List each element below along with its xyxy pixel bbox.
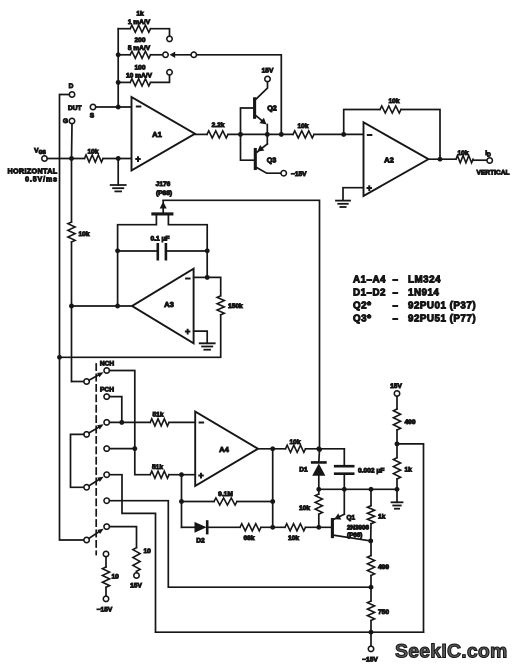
svg-text:−: − xyxy=(367,130,372,140)
svg-text:10 mA/V: 10 mA/V xyxy=(126,73,153,80)
svg-text:10k: 10k xyxy=(289,439,300,446)
svg-text:+: + xyxy=(198,470,203,480)
svg-text:10k: 10k xyxy=(79,231,90,238)
svg-text:1N914: 1N914 xyxy=(408,288,439,299)
svg-text:−15V: −15V xyxy=(291,171,307,178)
svg-text:150k: 150k xyxy=(228,303,243,310)
svg-text:1k: 1k xyxy=(378,513,386,520)
svg-text:Q2*: Q2* xyxy=(353,301,371,312)
svg-text:Q2: Q2 xyxy=(267,104,277,113)
svg-text:499: 499 xyxy=(405,419,416,426)
svg-text:–: – xyxy=(393,288,399,299)
svg-text:2.2k: 2.2k xyxy=(212,122,225,129)
svg-text:51k: 51k xyxy=(152,464,163,471)
svg-text:1k: 1k xyxy=(405,467,413,474)
svg-text:92PU51 (P77): 92PU51 (P77) xyxy=(408,313,476,324)
svg-text:10: 10 xyxy=(144,548,152,555)
svg-text:10k: 10k xyxy=(297,123,308,130)
svg-text:+: + xyxy=(185,327,190,337)
svg-text:750: 750 xyxy=(378,609,389,616)
svg-text:D2: D2 xyxy=(196,538,205,545)
svg-text:D1: D1 xyxy=(299,467,308,474)
svg-text:−15V: −15V xyxy=(97,607,113,614)
svg-text:1 mA/V: 1 mA/V xyxy=(128,19,151,26)
svg-text:+: + xyxy=(367,183,372,193)
svg-text:D1–D2: D1–D2 xyxy=(353,288,386,299)
svg-text:G: G xyxy=(63,118,68,125)
svg-text:S: S xyxy=(90,112,95,119)
svg-text:−: − xyxy=(199,417,204,427)
svg-text:(P88): (P88) xyxy=(156,190,172,197)
svg-text:NCH: NCH xyxy=(100,361,115,368)
svg-text:A4: A4 xyxy=(219,445,229,454)
svg-text:−: − xyxy=(185,274,190,284)
svg-text:Q3*: Q3* xyxy=(353,313,371,324)
svg-text:LM324: LM324 xyxy=(408,275,441,286)
svg-text:–: – xyxy=(393,275,399,286)
svg-text:200: 200 xyxy=(134,37,145,44)
svg-text:10k: 10k xyxy=(388,98,399,105)
svg-text:A1–A4: A1–A4 xyxy=(353,275,386,286)
svg-text:A3: A3 xyxy=(164,300,174,309)
svg-text:0.002 μF: 0.002 μF xyxy=(358,467,384,474)
svg-text:HORIZONTAL: HORIZONTAL xyxy=(7,167,57,176)
svg-text:68k: 68k xyxy=(243,535,254,542)
svg-text:DUT: DUT xyxy=(68,105,82,112)
svg-text:Q3: Q3 xyxy=(267,156,277,165)
svg-text:0.5V/ms: 0.5V/ms xyxy=(25,177,58,184)
svg-text:–: – xyxy=(393,301,399,312)
svg-text:15V: 15V xyxy=(262,67,274,74)
svg-text:Q1: Q1 xyxy=(347,515,356,522)
svg-text:5 mA/V: 5 mA/V xyxy=(128,45,151,52)
svg-text:10k: 10k xyxy=(87,149,98,156)
svg-text:1k: 1k xyxy=(136,11,144,18)
svg-text:A2: A2 xyxy=(384,155,394,164)
svg-text:A1: A1 xyxy=(152,130,162,139)
svg-text:2N3906: 2N3906 xyxy=(347,525,370,532)
svg-text:D: D xyxy=(69,83,74,90)
svg-text:−15V: −15V xyxy=(362,657,378,664)
svg-text:PCH: PCH xyxy=(100,387,114,394)
svg-text:100: 100 xyxy=(134,64,145,71)
svg-text:−: − xyxy=(136,102,141,112)
svg-text:10k: 10k xyxy=(299,505,310,512)
svg-text:92PU01 (P37): 92PU01 (P37) xyxy=(408,301,476,312)
svg-text:10: 10 xyxy=(112,574,120,581)
svg-text:499: 499 xyxy=(378,564,389,571)
svg-text:15V: 15V xyxy=(130,583,142,590)
svg-text:0.1 μF: 0.1 μF xyxy=(150,235,169,242)
svg-text:15V: 15V xyxy=(390,383,402,390)
svg-text:VERTICAL: VERTICAL xyxy=(477,170,510,177)
svg-text:–: – xyxy=(393,313,399,324)
svg-text:+: + xyxy=(135,154,140,164)
svg-text:SeekIC.com: SeekIC.com xyxy=(395,641,508,663)
svg-text:J176: J176 xyxy=(156,181,171,188)
svg-text:10k: 10k xyxy=(288,535,299,542)
